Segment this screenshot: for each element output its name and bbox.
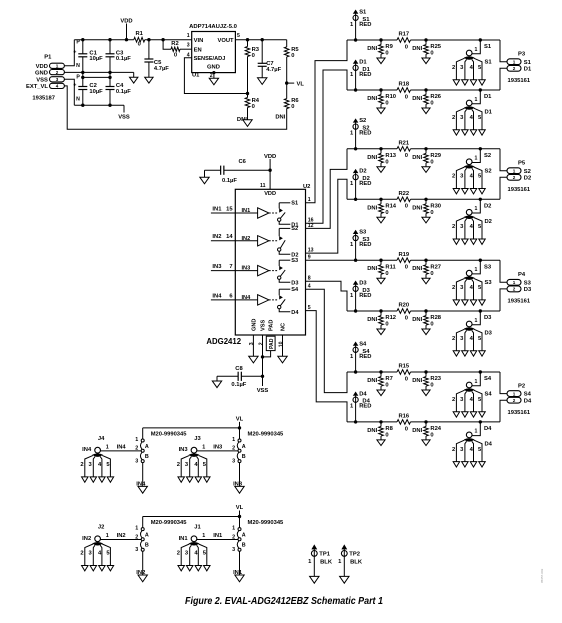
svg-text:S2: S2 (359, 118, 366, 124)
capacitor C6 (205, 169, 221, 171)
svg-text:1: 1 (475, 156, 478, 162)
svg-text:1: 1 (475, 318, 478, 324)
svg-text:0: 0 (385, 271, 388, 277)
svg-text:2: 2 (177, 462, 180, 468)
svg-text:M20-9990345: M20-9990345 (151, 431, 188, 437)
pin S3 (9) of U2 (279, 259, 290, 261)
svg-text:VDD: VDD (36, 64, 48, 70)
svg-text:D1: D1 (484, 94, 492, 100)
svg-text:VOUT: VOUT (217, 38, 234, 44)
svg-text:R14: R14 (385, 204, 396, 210)
svg-text:RED: RED (359, 242, 371, 248)
svg-text:R10: R10 (385, 94, 396, 100)
ground (R30) (422, 217, 430, 223)
svg-text:DNI: DNI (412, 317, 422, 323)
resistor R13 (DNI) (380, 149, 382, 154)
svg-text:VSS: VSS (261, 320, 267, 331)
svg-text:0.1µF: 0.1µF (222, 178, 237, 184)
pin IN3 (7) of U2 (211, 270, 235, 272)
svg-text:VL: VL (236, 416, 244, 422)
wire S2 bus (347, 148, 397, 150)
svg-text:VSS: VSS (36, 78, 48, 84)
svg-text:DNI: DNI (367, 96, 377, 102)
svg-text:0: 0 (385, 322, 388, 328)
svg-text:S1: S1 (359, 9, 367, 15)
capacitor C7 (261, 40, 263, 64)
svg-text:VL: VL (236, 505, 244, 511)
test point D1 (353, 60, 357, 63)
svg-text:RED: RED (359, 293, 371, 299)
test point D3 (353, 281, 357, 284)
connector P4 (507, 279, 521, 285)
svg-text:A: A (145, 444, 149, 450)
svg-text:0: 0 (430, 322, 433, 328)
svg-text:DNI: DNI (275, 114, 285, 120)
svg-text:DNI: DNI (367, 46, 377, 52)
svg-text:DNI: DNI (412, 96, 422, 102)
ground (TP2) (340, 576, 349, 583)
connector D2 (coax) (464, 216, 475, 220)
wire VDD to pin 11 (269, 170, 271, 189)
svg-text:IN1: IN1 (179, 536, 189, 542)
wire S4 bus (347, 371, 397, 373)
svg-text:DNI: DNI (412, 155, 422, 161)
svg-text:D4: D4 (484, 426, 492, 432)
svg-text:R2: R2 (171, 41, 178, 47)
svg-text:R11: R11 (385, 264, 396, 270)
svg-text:4.7µF: 4.7µF (266, 67, 281, 73)
svg-text:C6: C6 (238, 159, 246, 165)
wire jumper pin3 to ground (IN3) (239, 463, 241, 487)
ground (R29) (422, 167, 430, 173)
svg-text:15: 15 (226, 206, 233, 212)
svg-text:3: 3 (56, 77, 59, 82)
svg-text:P1: P1 (44, 55, 52, 61)
connector P3 (507, 59, 521, 65)
ground (IN4 jumper) (138, 486, 147, 493)
switch S3-D3 inside U2 (278, 260, 280, 266)
capacitor C4 (109, 77, 111, 86)
svg-text:VDD: VDD (264, 191, 276, 197)
wire VOUT rail (235, 39, 286, 41)
svg-text:1: 1 (187, 33, 190, 39)
svg-text:J4: J4 (98, 436, 105, 442)
jumper M20-9990345 (IN1) (239, 517, 241, 528)
svg-text:ADG2412: ADG2412 (206, 337, 241, 346)
svg-text:A: A (242, 444, 246, 450)
resistor R28 (DNI) (425, 311, 427, 316)
resistor R7 (DNI) (380, 372, 382, 377)
svg-text:P: P (76, 40, 80, 46)
svg-text:1: 1 (106, 533, 109, 539)
wire VSS bottom rail (74, 104, 124, 106)
resistor R14 (DNI) (380, 199, 382, 204)
svg-text:2: 2 (80, 462, 83, 468)
wire D1 bus (347, 89, 397, 91)
svg-text:RED: RED (359, 354, 371, 360)
svg-text:2: 2 (177, 551, 180, 557)
wire P1 pin3 to VSS rail (64, 79, 74, 105)
svg-text:IN2: IN2 (212, 234, 221, 240)
test point TP1 (312, 545, 317, 549)
connector D1 (coax) (464, 106, 475, 110)
svg-text:EXT_VL: EXT_VL (26, 84, 48, 90)
test point S1 (353, 10, 357, 13)
svg-text:GND: GND (35, 70, 48, 76)
svg-text:D2: D2 (359, 169, 366, 175)
wire SENSE/ADJ feedback (184, 58, 247, 94)
svg-text:3: 3 (249, 342, 255, 345)
svg-text:D2: D2 (484, 204, 491, 210)
svg-text:P3: P3 (518, 52, 526, 58)
svg-text:0: 0 (252, 104, 255, 110)
resistor R21 (397, 147, 411, 152)
connector S3 (coax) (464, 276, 475, 280)
svg-text:R20: R20 (398, 303, 409, 309)
wire J3 pin1 to jumper (IN3) (197, 450, 238, 452)
pin S1 (1) of U2 (279, 202, 290, 204)
svg-text:0: 0 (405, 153, 408, 159)
ground (IN1 jumper) (235, 575, 244, 582)
svg-text:1: 1 (513, 391, 516, 396)
svg-text:R8: R8 (385, 426, 393, 432)
wire coax S3 pin1 (472, 260, 480, 274)
svg-text:10µF: 10µF (89, 89, 103, 95)
wire VL rail (bottom section) (143, 427, 240, 429)
svg-text:2: 2 (452, 65, 455, 71)
svg-text:0: 0 (385, 433, 388, 439)
resistor R24 (DNI) (425, 422, 427, 427)
svg-text:S3: S3 (359, 230, 367, 236)
ground (R4) (243, 120, 252, 127)
ground (IN3 jumper) (235, 486, 244, 493)
wire P1 pin2 to GND rail (64, 71, 82, 73)
svg-text:S2: S2 (484, 153, 491, 159)
svg-text:C8: C8 (235, 366, 243, 372)
svg-text:0: 0 (405, 376, 408, 382)
svg-text:B: B (242, 543, 246, 549)
svg-text:M20-9990345: M20-9990345 (151, 520, 188, 526)
svg-text:R22: R22 (398, 191, 409, 197)
svg-text:GND: GND (252, 319, 258, 331)
svg-text:0: 0 (252, 53, 255, 59)
resistor R29 (DNI) (425, 149, 427, 154)
svg-text:0: 0 (405, 315, 408, 321)
wire coax S4 pin1 (472, 372, 480, 386)
svg-text:D2: D2 (485, 219, 492, 225)
svg-text:7: 7 (229, 264, 232, 270)
resistor R18 (397, 88, 411, 93)
test point TP2 (342, 545, 347, 549)
svg-text:2: 2 (232, 534, 235, 540)
wire VSS net at U2 (262, 357, 264, 386)
svg-text:R13: R13 (385, 153, 396, 159)
svg-text:R17: R17 (398, 32, 409, 38)
wire GND lower rail (83, 76, 110, 78)
svg-text:0: 0 (385, 51, 388, 57)
svg-text:VL: VL (297, 81, 305, 87)
svg-text:R26: R26 (430, 94, 441, 100)
svg-text:DNI: DNI (412, 266, 422, 272)
resistor R4 (DNI) (247, 94, 249, 98)
svg-text:2: 2 (232, 446, 235, 452)
svg-text:R25: R25 (430, 44, 441, 50)
wire VL rail (bottom section) (143, 516, 240, 518)
ground (C6) (204, 170, 206, 177)
svg-text:0: 0 (430, 101, 433, 107)
svg-text:5: 5 (237, 33, 240, 39)
svg-text:2: 2 (513, 175, 516, 180)
ground (C5) (148, 73, 150, 78)
wire route U2 pin to S4 bus (306, 289, 348, 392)
svg-text:1: 1 (475, 429, 478, 435)
svg-text:DNI: DNI (367, 205, 377, 211)
svg-text:IN4: IN4 (212, 293, 222, 299)
wire S4 to P2 pin1 (500, 372, 507, 394)
svg-text:R18: R18 (398, 82, 409, 88)
svg-text:10: 10 (278, 341, 284, 347)
svg-text:D3: D3 (359, 280, 367, 286)
svg-text:VSS: VSS (118, 115, 130, 121)
svg-text:RED: RED (359, 22, 371, 28)
ground (R25) (422, 58, 430, 64)
svg-text:0: 0 (430, 433, 433, 439)
svg-text:1: 1 (475, 97, 478, 103)
svg-text:0: 0 (138, 42, 141, 48)
connector S2 (coax) (464, 165, 475, 169)
resistor R19 (397, 258, 411, 263)
wire D3 to P4 pin2 (500, 289, 507, 311)
svg-text:1935161: 1935161 (508, 299, 531, 305)
svg-text:2: 2 (135, 446, 138, 452)
svg-text:R15: R15 (398, 364, 409, 370)
svg-text:N: N (76, 96, 80, 102)
svg-text:SENSE/ADJ: SENSE/ADJ (194, 56, 226, 62)
svg-text:TP2: TP2 (349, 552, 360, 558)
svg-text:1: 1 (475, 379, 478, 385)
svg-text:0: 0 (174, 52, 177, 58)
wire jumper pin3 to ground (IN4) (142, 463, 144, 487)
svg-text:1: 1 (202, 445, 205, 451)
wire coax D1 pin1 (472, 90, 480, 104)
svg-text:0: 0 (405, 44, 408, 50)
test point S4 (353, 342, 357, 345)
svg-text:D1: D1 (359, 59, 367, 65)
ground (C7) (258, 78, 267, 85)
wire D4 to P2 pin2 (500, 400, 507, 422)
ground (IN2 jumper) (138, 575, 147, 582)
svg-text:BLK: BLK (350, 559, 363, 565)
svg-text:D1: D1 (524, 66, 532, 72)
svg-text:S1: S1 (291, 200, 298, 206)
svg-text:M20-9990345: M20-9990345 (248, 431, 285, 437)
svg-text:0: 0 (405, 94, 408, 100)
net VL (bottom section) (239, 511, 241, 517)
resistor R12 (DNI) (380, 311, 382, 316)
connector S4 (coax) (464, 388, 475, 392)
svg-text:4: 4 (56, 84, 59, 89)
test point S3 (353, 230, 357, 233)
svg-text:4.7µF: 4.7µF (154, 66, 169, 72)
test point D4 (353, 392, 357, 395)
wire P1 pin4 EXT_VL run (64, 86, 286, 129)
svg-text:0.1µF: 0.1µF (116, 89, 131, 95)
svg-text:D4: D4 (485, 442, 493, 448)
wire D2 bus (347, 198, 397, 200)
svg-text:1: 1 (513, 280, 516, 285)
ground (R24) (422, 440, 430, 446)
svg-text:0: 0 (430, 383, 433, 389)
svg-text:2: 2 (80, 551, 83, 557)
svg-text:R12: R12 (385, 315, 396, 321)
ground (R9) (377, 58, 385, 64)
svg-text:D2: D2 (524, 175, 531, 181)
ground (TP1) (310, 576, 319, 583)
connector D4 (coax) (464, 438, 475, 442)
svg-text:R9: R9 (385, 44, 393, 50)
svg-text:2: 2 (135, 534, 138, 540)
resistor R15 (397, 370, 411, 375)
svg-text:J1: J1 (194, 525, 201, 531)
svg-text:S3: S3 (291, 258, 298, 264)
svg-text:J2: J2 (98, 525, 104, 531)
wire S1 bus (347, 39, 397, 41)
svg-text:M20-9990345: M20-9990345 (248, 520, 285, 526)
resistor R22 (397, 197, 411, 202)
svg-text:1: 1 (513, 59, 516, 64)
svg-text:1935161: 1935161 (508, 187, 531, 193)
svg-text:2: 2 (452, 224, 455, 230)
svg-text:S4: S4 (484, 376, 492, 382)
svg-text:R30: R30 (430, 204, 441, 210)
svg-text:11: 11 (260, 183, 266, 189)
svg-text:D4: D4 (359, 391, 367, 397)
svg-text:S1: S1 (485, 60, 493, 66)
svg-text:P4: P4 (518, 272, 526, 278)
resistor R2 (171, 47, 180, 51)
svg-text:P: P (76, 74, 80, 80)
svg-text:VIN: VIN (194, 38, 204, 44)
wire D3 bus (347, 310, 397, 312)
svg-text:S4: S4 (485, 392, 493, 398)
resistor R16 (397, 420, 411, 425)
svg-text:S4: S4 (359, 341, 367, 347)
svg-text:DNI: DNI (412, 428, 422, 434)
op-amp U1 ADP714AUJZ-5.0 regulator (192, 32, 236, 73)
svg-text:0: 0 (430, 51, 433, 57)
svg-text:+: + (73, 83, 76, 89)
svg-text:D4: D4 (524, 398, 532, 404)
capacitor C8 (217, 375, 238, 377)
ground (R8) (377, 440, 385, 446)
resistor R23 (DNI) (425, 372, 427, 377)
capacitor C1 (82, 40, 84, 54)
svg-text:0: 0 (385, 101, 388, 107)
svg-text:S2: S2 (485, 168, 492, 174)
capacitor C3 (109, 40, 111, 54)
connector S1 (coax) (464, 56, 475, 60)
svg-text:0: 0 (385, 383, 388, 389)
wire jumper pin3 to ground (IN2) (142, 551, 144, 575)
svg-text:1935161: 1935161 (508, 410, 531, 416)
svg-text:B: B (145, 454, 149, 460)
capacitor C2 (82, 77, 84, 86)
svg-text:1: 1 (475, 206, 478, 212)
svg-text:05657-002: 05657-002 (540, 568, 544, 583)
svg-text:14: 14 (226, 234, 233, 240)
ground (U2 NC pin) (278, 356, 287, 363)
resistor R10 (DNI) (380, 90, 382, 95)
svg-text:EN: EN (194, 47, 202, 53)
connector D3 (coax) (464, 327, 475, 331)
ground (GND rail) (133, 72, 135, 77)
svg-text:D3: D3 (291, 281, 298, 287)
svg-text:TP1: TP1 (319, 552, 330, 558)
svg-text:RED: RED (359, 131, 371, 137)
svg-text:3: 3 (232, 547, 235, 553)
ground (R13) (377, 167, 385, 173)
ground (U2 GND pin) (249, 356, 258, 363)
ground (R14) (377, 217, 385, 223)
capacitor C5 (148, 40, 150, 59)
wire S1 to P3 pin1 (500, 40, 507, 62)
svg-text:IN1: IN1 (213, 533, 223, 539)
resistor R27 (DNI) (425, 260, 427, 265)
resistor R6 (DNI) (286, 83, 288, 99)
wire coax S2 pin1 (472, 149, 480, 163)
resistor R1 (134, 37, 145, 42)
net VL (bottom section) (239, 422, 241, 428)
svg-text:IN2: IN2 (117, 533, 126, 539)
svg-text:1: 1 (232, 437, 235, 443)
op-amp U2 ADG2412 quad switch (235, 189, 305, 335)
svg-text:N: N (76, 63, 80, 69)
resistor R9 (DNI) (380, 40, 382, 45)
svg-text:DNI: DNI (367, 317, 377, 323)
svg-text:U1: U1 (192, 72, 200, 78)
svg-text:BLK: BLK (320, 559, 333, 565)
svg-text:1: 1 (135, 526, 138, 532)
resistor R11 (DNI) (380, 260, 382, 265)
svg-text:0: 0 (385, 210, 388, 216)
jumper M20-9990345 (IN3) (239, 428, 241, 439)
jumper M20-9990345 (IN2) (142, 517, 144, 528)
svg-text:DNI: DNI (412, 46, 422, 52)
wire J1 pin1 to jumper (IN1) (197, 539, 238, 541)
svg-text:R1: R1 (135, 31, 143, 37)
svg-text:2: 2 (56, 70, 59, 75)
resistor R8 (DNI) (380, 422, 382, 427)
wire route U2 pin to S2 bus (306, 149, 348, 229)
svg-text:S3: S3 (484, 264, 492, 270)
svg-text:2: 2 (452, 285, 455, 291)
svg-text:1: 1 (56, 64, 59, 69)
svg-text:0.1µF: 0.1µF (116, 56, 131, 62)
resistor R5 (286, 40, 288, 47)
svg-text:2: 2 (258, 342, 264, 345)
wire PAD to VSS (263, 351, 271, 357)
svg-text:IN3: IN3 (213, 445, 223, 451)
svg-text:IN4: IN4 (82, 447, 92, 453)
wire D1 to P3 pin2 (500, 68, 507, 90)
svg-text:RED: RED (359, 72, 371, 78)
pin S2 (12) of U2 (279, 227, 290, 229)
svg-text:S2: S2 (524, 169, 531, 175)
connector P5 (507, 168, 521, 174)
svg-text:IN1: IN1 (212, 206, 222, 212)
svg-text:D3: D3 (524, 287, 532, 293)
svg-text:0: 0 (430, 210, 433, 216)
